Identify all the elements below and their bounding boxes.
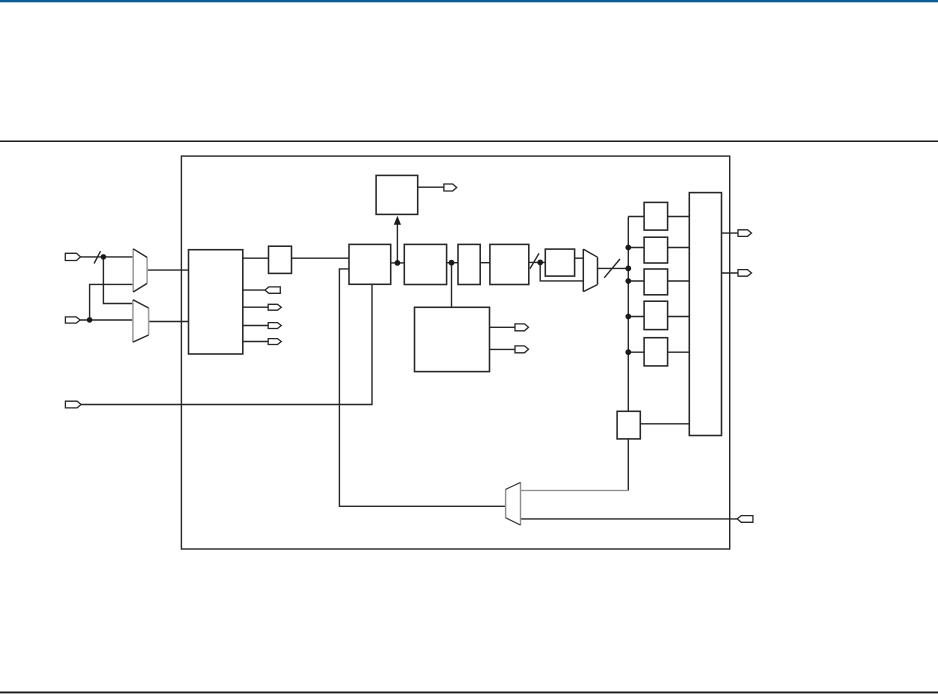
wire: mux M3 output to channel bus: [598, 267, 629, 269]
input pin 3: [65, 401, 81, 408]
block B5: [490, 244, 529, 284]
wire: node A down to mux M2 upper input: [103, 257, 132, 304]
bottom square Q6: [617, 411, 640, 439]
node A junction dot: [101, 254, 107, 260]
bus junction dot q2: [625, 245, 631, 251]
mux M1: [133, 249, 147, 292]
mux M4 bottom, points left: [506, 482, 521, 525]
center block B6 compare logic: [415, 307, 490, 371]
block B1 clock select logic: [189, 250, 243, 354]
wire: input pin 2 to mux M2 lower input: [80, 319, 133, 321]
mux M2: [133, 300, 149, 342]
bus junction dot q4: [625, 314, 631, 320]
outer module boundary box: [181, 156, 729, 549]
wire: bus to channel square Q3: [628, 280, 644, 282]
wire: bus to channel square Q2: [628, 247, 644, 249]
bus junction dot mux3: [625, 266, 631, 272]
wire: block B1 to pin A: [243, 289, 265, 291]
wire: square S1 to block B2: [292, 257, 350, 259]
node D junction dot: [537, 260, 543, 266]
footer horizontal rule: [0, 691, 938, 693]
output pin G: [738, 230, 752, 237]
top box T1 overflow flag: [376, 175, 418, 214]
wire: center block B6 to pin F: [490, 348, 516, 350]
wire: top box T1 to pin T: [418, 186, 444, 188]
pin A points left: [265, 287, 280, 293]
node junction dot pin2 branch: [87, 317, 93, 323]
wire: bus to channel square Q4: [628, 316, 644, 318]
wire: channel bus vertical: [627, 217, 629, 491]
pin T top output: [444, 184, 457, 191]
wire: block B1 to pin B: [243, 306, 268, 308]
wire: input pin 1 to mux M1 upper input: [81, 256, 134, 258]
channel square Q4: [644, 301, 668, 329]
wire: block B1 to square S1: [243, 257, 269, 259]
wire: bus to channel square Q5: [628, 351, 644, 353]
input pin 4 points left: [737, 516, 753, 523]
wire: channel square Q5 to register block R1: [668, 351, 690, 353]
top blue banner bar: [0, 0, 938, 2]
bus-width slash on mux M3 output: [604, 259, 620, 278]
wire: box S2 output to mux M3: [575, 257, 584, 259]
block B4 narrow: [458, 244, 480, 284]
bus junction dot q5: [625, 349, 631, 355]
wire: block B1 to pin D: [243, 341, 268, 343]
bus-width slash after block B5: [530, 253, 539, 268]
wire: feedback from bottom mux M4 output to block B2 left: [339, 269, 505, 506]
register block R1 tall: [689, 193, 721, 436]
bus junction dot q3: [625, 278, 631, 284]
channel square Q1: [644, 202, 668, 230]
wire: bus down to bottom mux M4 upper input (gray): [521, 490, 628, 492]
wire: channel square Q2 to register block R1: [668, 247, 690, 249]
wire: register block R1 to output pin H: [722, 272, 739, 274]
wire: channel square Q4 to register block R1: [668, 316, 690, 318]
wire: mux M2 output to block B1: [149, 321, 189, 323]
wire: mux M1 output to block B1: [147, 269, 188, 271]
channel square Q3: [644, 269, 668, 295]
wire: block B4 to block B5: [480, 262, 490, 264]
wire: center block B6 to pin E: [490, 326, 516, 328]
wire: block B2 to block B3: [391, 262, 405, 264]
wire: channel square Q1 to register block R1: [668, 216, 690, 218]
arrowhead into top box T1: [394, 216, 401, 225]
node C junction dot: [449, 260, 455, 266]
channel square Q2: [644, 237, 668, 263]
wire: block B5 to box S2: [529, 261, 546, 263]
wire: bypass from node D to mux M3 lower input: [540, 262, 583, 281]
output pin H: [738, 270, 752, 277]
wire: bus to channel square Q1: [628, 216, 644, 218]
wire: node C down to center block B6: [451, 263, 453, 308]
wire: register block R1 to output pin G: [722, 232, 739, 234]
box S2: [545, 249, 574, 276]
node B junction dot: [395, 260, 401, 266]
pin B: [268, 304, 281, 310]
pin E: [515, 324, 529, 331]
bus-width slash on input 1 wire: [94, 251, 100, 263]
pin D: [268, 339, 281, 345]
pin F: [515, 346, 529, 353]
wire: block B3 to block B4: [447, 262, 458, 264]
input pin 1: [65, 253, 80, 260]
wire: arrow up from node B to top box T1: [396, 224, 398, 263]
wire: channel square Q3 to register block R1: [668, 280, 690, 282]
pin C: [268, 323, 281, 329]
input pin 2: [65, 317, 80, 323]
header horizontal rule: [0, 140, 938, 142]
wire: input pin 4 to bottom mux M4 lower input: [521, 518, 738, 520]
wire: bottom square Q6 to register block R1: [640, 423, 689, 425]
block B3: [404, 244, 446, 284]
wire: mux M1 lower input branch: [90, 284, 134, 320]
block B2 counter: [349, 244, 391, 284]
mux M3: [583, 249, 597, 292]
channel square Q5: [644, 338, 668, 366]
square S1 prescaler: [269, 246, 292, 273]
wire: block B1 to pin C: [243, 325, 268, 327]
wire: input pin 3 into block B2 bottom: [81, 284, 372, 404]
